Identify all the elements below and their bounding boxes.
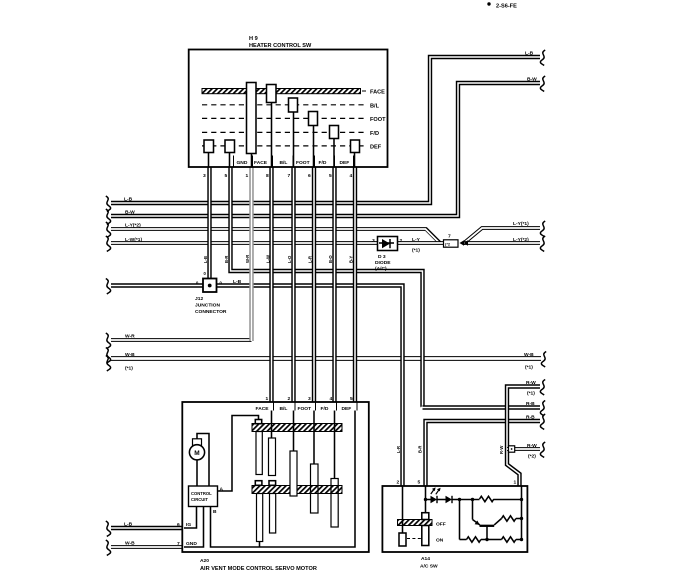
svg-text:3: 3 xyxy=(203,173,206,179)
svg-text:B-W: B-W xyxy=(527,77,537,83)
motor M xyxy=(189,439,204,460)
heater B/L dashed position line xyxy=(202,103,380,109)
wire L-B from left break through J12 down to A/C SW pin 2 xyxy=(111,286,403,488)
bottom wire with resistor R3 xyxy=(460,537,489,542)
svg-text:R-B: R-B xyxy=(526,415,535,421)
svg-text:B/L: B/L xyxy=(280,160,288,166)
servo lower-bar top contact left xyxy=(255,481,262,486)
motor top lead loop to control circuit xyxy=(197,434,209,487)
svg-text:L-B: L-B xyxy=(233,279,242,285)
heater contact pin3 DEF-left xyxy=(204,140,214,167)
servo FACE strip xyxy=(269,438,276,476)
svg-text:L-B: L-B xyxy=(124,522,133,528)
svg-text:ON: ON xyxy=(436,538,444,544)
svg-text:(A/C): (A/C) xyxy=(375,266,387,272)
wire node to R1 and base divider node xyxy=(460,498,480,501)
svg-text:R-W: R-W xyxy=(499,446,504,454)
wire heater F/D drop to servo pin 4 xyxy=(332,167,336,403)
svg-text:1: 1 xyxy=(266,396,269,402)
servo F/D contact strip xyxy=(331,479,338,528)
servo GND pin 7 lead xyxy=(177,507,204,548)
svg-text:L-Y: L-Y xyxy=(412,237,421,243)
bus wire name labels left xyxy=(124,197,242,547)
terminal B label and lead xyxy=(213,509,217,515)
inline connector on R-W(*2) branch xyxy=(509,446,515,452)
servo lower-bar top contact right xyxy=(269,481,276,486)
svg-text:DIODE: DIODE xyxy=(375,260,391,266)
wire R-W(*1) from A/C SW pin 1 riser to right break xyxy=(507,387,540,488)
svg-text:J12: J12 xyxy=(195,296,203,302)
rotated wire color labels on heater drops xyxy=(203,255,354,263)
A/C switch hatched wiper bar xyxy=(398,520,433,526)
wire heater FACE drop to servo pin 1 xyxy=(269,167,273,403)
svg-text:FACE: FACE xyxy=(370,90,385,96)
servo wire pin1 FACE to strip xyxy=(271,411,273,439)
svg-text:8: 8 xyxy=(266,173,269,179)
heater pin numbers xyxy=(203,173,353,179)
diode D3 (A/C) xyxy=(372,237,403,273)
diode in A/C switch xyxy=(437,496,460,503)
svg-text:FOOT: FOOT xyxy=(370,117,386,123)
svg-text:B/L: B/L xyxy=(370,103,380,109)
svg-text:A14: A14 xyxy=(421,556,430,562)
svg-text:B-W: B-W xyxy=(125,210,135,216)
heater DEF dashed position line xyxy=(202,144,382,150)
svg-text:W-B: W-B xyxy=(524,352,534,358)
svg-text:DEF: DEF xyxy=(340,160,350,166)
svg-text:B-Y: B-Y xyxy=(349,256,354,263)
svg-text:F/D: F/D xyxy=(319,160,327,166)
node pin5/LED junction xyxy=(424,498,427,501)
heater control switch H9 box xyxy=(189,36,388,167)
svg-text:2: 2 xyxy=(288,396,291,402)
svg-text:5: 5 xyxy=(225,173,228,179)
servo FOOT contact strip (under upper bar hatch) xyxy=(311,464,319,513)
A/C pin2 movable contact xyxy=(399,533,406,546)
svg-text:5: 5 xyxy=(350,396,353,402)
A/C pin numbers xyxy=(397,480,517,486)
wire R-W(*2) branch through inline connector to right break xyxy=(507,447,540,451)
svg-text:5: 5 xyxy=(418,480,421,486)
servo A-terminal wire to top contact xyxy=(218,416,259,492)
wire bus L-Y(*2) from left connector break xyxy=(111,229,440,243)
servo B/L strip xyxy=(290,451,297,496)
svg-text:L-B: L-B xyxy=(124,197,133,203)
svg-text:L-B: L-B xyxy=(203,256,208,263)
heater FACE contact xyxy=(267,85,277,168)
wire W-B to servo GND pin xyxy=(111,545,184,549)
svg-text:6: 6 xyxy=(177,522,180,528)
svg-text:(*1): (*1) xyxy=(125,366,133,372)
svg-text:L-Y(*2): L-Y(*2) xyxy=(513,237,529,243)
svg-text:OFF: OFF xyxy=(436,522,446,528)
svg-text:B-R: B-R xyxy=(224,256,229,263)
heater terminal name row xyxy=(237,160,350,166)
servo lower wiper hatched bar xyxy=(252,486,342,494)
svg-text:L-R: L-R xyxy=(308,256,313,263)
svg-text:3: 3 xyxy=(372,238,375,244)
svg-text:F/D: F/D xyxy=(321,406,329,412)
svg-text:B: B xyxy=(213,509,217,515)
resistor R1 xyxy=(480,496,494,501)
wire heater DEF drop to servo pin 5 xyxy=(353,167,357,403)
A/C pin5 fixed contact on bar xyxy=(422,513,429,520)
svg-text:2: 2 xyxy=(400,238,403,244)
heater FOOT dashed position line xyxy=(202,117,386,123)
junction connector J12 xyxy=(195,271,227,315)
servo motor A20 box xyxy=(182,402,368,572)
heater F/D contact xyxy=(330,126,339,168)
svg-text:W-B: W-B xyxy=(125,541,135,547)
wire bus L-B with riser to top-right break xyxy=(111,57,540,203)
label L-Y (*1) between diode and connector xyxy=(412,237,421,254)
left rail down from diode node xyxy=(459,500,461,540)
wire bus B-W with riser to top-right break xyxy=(111,83,540,216)
wire R-B lower from right break down to A/C SW pin 5 xyxy=(426,421,541,487)
svg-text:GND: GND xyxy=(237,160,248,166)
wire L-Y(*1) from connector 7 up to right break xyxy=(463,228,540,243)
svg-text:DEF: DEF xyxy=(342,406,352,412)
svg-text:L-R: L-R xyxy=(396,446,401,453)
svg-text:A: A xyxy=(220,487,224,493)
heater B/L contact xyxy=(289,98,298,167)
wire R1 to right rail xyxy=(494,498,523,501)
wire bus W-B(*1) across page xyxy=(111,356,541,361)
svg-text:R-B: R-B xyxy=(526,401,535,407)
svg-text:R-W: R-W xyxy=(527,443,537,449)
svg-text:1: 1 xyxy=(514,480,517,486)
svg-text:W-B: W-B xyxy=(125,352,135,358)
servo upper wiper hatched bar xyxy=(252,424,342,432)
svg-text:B-O: B-O xyxy=(328,255,333,263)
wire L-B thick to servo IG pin xyxy=(111,526,184,530)
transistor Q1 xyxy=(473,519,502,540)
svg-text:7: 7 xyxy=(448,234,451,240)
svg-text:W-R: W-R xyxy=(245,255,250,263)
svg-text:7: 7 xyxy=(288,173,291,179)
A/C switch A14 box xyxy=(382,486,527,570)
svg-text:B/L: B/L xyxy=(280,406,288,412)
node diode output xyxy=(458,498,461,501)
servo wire pin5 DEF down right side to B bus xyxy=(211,411,356,548)
svg-text:HEATER CONTROL SW: HEATER CONTROL SW xyxy=(249,43,312,49)
svg-text:CONTROL: CONTROL xyxy=(191,491,212,496)
svg-text:IG: IG xyxy=(186,522,191,528)
heater FOOT contact xyxy=(309,112,318,168)
svg-text:4: 4 xyxy=(350,173,353,179)
svg-text:R-W: R-W xyxy=(526,380,536,386)
heater contact pin5 DEF-left2 xyxy=(225,140,235,167)
svg-text:A/C SW: A/C SW xyxy=(420,564,438,570)
servo A strip under upper bar xyxy=(256,432,262,475)
svg-text:5: 5 xyxy=(329,173,332,179)
svg-text:(*2: (*2 xyxy=(445,242,451,247)
LED indicator with emission arrows xyxy=(426,487,441,503)
svg-text:FACE: FACE xyxy=(256,406,270,412)
wire R-B upper to right break xyxy=(421,405,541,409)
svg-text:W-R: W-R xyxy=(125,334,135,340)
servo IG pin 6 lead xyxy=(177,507,197,529)
svg-text:CIRCUIT: CIRCUIT xyxy=(191,497,208,502)
servo terminal cell dividers and names xyxy=(256,402,358,412)
wire W-R from left break to heater GND drop xyxy=(111,338,252,342)
svg-text:F/D: F/D xyxy=(370,131,379,137)
A/C pin5 lower contact under bar xyxy=(422,526,429,546)
mechanical link dashed xyxy=(407,538,421,540)
servo wire pin2 B/L to strip xyxy=(293,411,295,452)
svg-text:L-Y(*1): L-Y(*1) xyxy=(513,221,529,227)
inline connector 7 (*2) xyxy=(444,234,469,248)
OFF / ON labels xyxy=(436,522,446,544)
servo wire pin4 F/D to strip xyxy=(334,411,336,480)
heater F/D dashed position line xyxy=(202,131,379,137)
A/C pin2 wire to switch contact xyxy=(402,486,404,533)
servo lower strip right xyxy=(270,494,276,534)
resistor R2 to right rail xyxy=(502,516,524,521)
heater DEF contact xyxy=(351,140,360,167)
svg-text:FOOT: FOOT xyxy=(296,160,310,166)
svg-text:2: 2 xyxy=(397,480,400,486)
servo pin numbers above box xyxy=(266,396,354,402)
svg-text:L-W(*1): L-W(*1) xyxy=(125,237,142,243)
svg-text:D 3: D 3 xyxy=(378,254,386,260)
svg-text:CONNECTOR: CONNECTOR xyxy=(195,309,227,315)
svg-text:L-O: L-O xyxy=(287,255,292,263)
wire B-R from heater pin 5 over to R-B riser xyxy=(231,167,423,408)
svg-text:L-W: L-W xyxy=(266,255,271,263)
svg-text:GND: GND xyxy=(186,541,197,547)
svg-text:1: 1 xyxy=(246,173,249,179)
svg-text:(*1): (*1) xyxy=(412,248,420,254)
svg-text:6: 6 xyxy=(308,173,311,179)
wire L-Y from diode D3 to inline connector 7 xyxy=(396,241,458,245)
wire L-Y(*2) from connector 7 to right break xyxy=(463,241,540,245)
wire heater pin 3 drop to J12 xyxy=(207,167,211,279)
svg-text:4: 4 xyxy=(330,396,333,402)
servo A top contact on upper bar xyxy=(255,420,261,424)
svg-text:7: 7 xyxy=(177,541,180,547)
right rail from pin1 xyxy=(521,486,523,540)
heater terminal cell dividers xyxy=(234,156,354,168)
svg-text:FOOT: FOOT xyxy=(298,406,312,412)
wire bus L-W(*1) from left connector break to diode D3 xyxy=(111,241,378,245)
svg-text:H 9: H 9 xyxy=(249,36,258,42)
svg-text:A20: A20 xyxy=(200,558,209,564)
resistor R4 on bottom wire xyxy=(487,537,523,542)
A/C pin5 wire down to LED node and bar contact xyxy=(425,486,427,513)
wire heater FOOT drop to servo pin 3 xyxy=(312,167,316,403)
rotated wire color labels near A/C switch xyxy=(396,446,504,454)
wire name labels right xyxy=(513,51,537,460)
svg-text:B-R: B-R xyxy=(418,446,423,453)
page code label 2-S6-FE xyxy=(487,2,517,9)
heater FACE hatched contact bar xyxy=(202,89,385,96)
wire W-R heater GND drop (gray) xyxy=(249,167,253,341)
left edge connector breaks xyxy=(106,196,111,555)
servo lower strip left connected to B xyxy=(257,494,263,548)
svg-text:DEF: DEF xyxy=(370,144,382,150)
base feed wire down from divider node xyxy=(472,500,474,520)
svg-text:(*1): (*1) xyxy=(525,365,533,371)
wire heater B/L drop to servo pin 2 xyxy=(291,167,295,403)
svg-text:FACE: FACE xyxy=(254,160,268,166)
right edge connector breaks xyxy=(540,50,546,457)
svg-text:(*1): (*1) xyxy=(527,391,535,397)
motor bottom lead xyxy=(196,460,198,486)
svg-text:(*2): (*2) xyxy=(528,454,536,460)
svg-text:L-Y(*2): L-Y(*2) xyxy=(125,223,141,229)
heater GND wiper slider xyxy=(247,83,257,168)
svg-text:2-S6-FE: 2-S6-FE xyxy=(496,4,517,10)
svg-text:JUNCTION: JUNCTION xyxy=(195,303,220,309)
svg-text:M: M xyxy=(194,450,199,457)
control circuit box xyxy=(189,486,218,507)
servo wire pin3 FOOT to strip xyxy=(313,411,315,466)
svg-text:AIR VENT MODE CONTROL SERVO MO: AIR VENT MODE CONTROL SERVO MOTOR xyxy=(200,566,317,572)
svg-text:3: 3 xyxy=(308,396,311,402)
svg-text:L-B: L-B xyxy=(525,51,534,57)
